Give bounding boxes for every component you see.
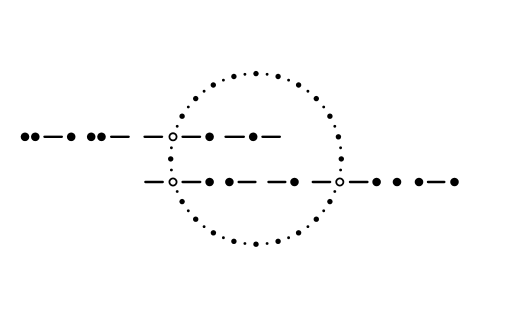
dotted circle (48-dot ring) [168, 71, 344, 247]
letter K (-.-) [224, 133, 281, 142]
letter U (..-) [87, 133, 130, 142]
letter C (-.-.) with open node on circle [143, 133, 214, 142]
letter F (..-.) [21, 133, 76, 142]
letter A (.-) [225, 178, 257, 187]
bottom morse line: CANCER [144, 178, 459, 187]
letter C (-.-.) with open node on circle [144, 178, 214, 187]
letter R (.-.) [415, 178, 459, 187]
top morse line: FUCK [21, 133, 281, 142]
letter E (.) [393, 178, 402, 187]
letter N (-.) [267, 178, 299, 187]
letter C (-.-.) with open node on circle [312, 178, 381, 187]
